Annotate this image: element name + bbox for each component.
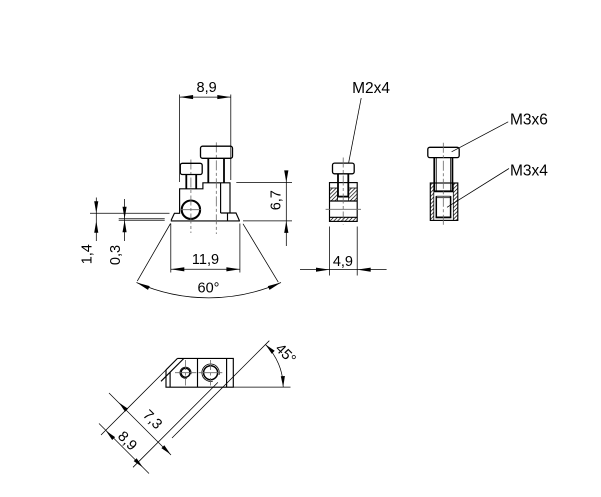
svg-text:60°: 60° (198, 281, 220, 297)
side section: screw M2x4 shaft (338, 174, 348, 197)
side section: vertical center line (342, 158, 344, 225)
front view: screw M2x4 head (180, 163, 202, 174)
dimension 0,3: arrows (123, 207, 127, 233)
dimension 7,3: dimension line (109, 393, 171, 455)
svg-text:0,3: 0,3 (108, 245, 124, 265)
front view: cross hole circle (182, 201, 200, 219)
dimension 45deg: horizontal reference line (233, 386, 290, 388)
side section: upper step line (330, 187, 358, 189)
right section: block outline (430, 183, 458, 220)
front view: right slot inner edge (220, 183, 222, 213)
dimension 8,9 top: dimension line (180, 96, 231, 98)
dimension 8,9 bottom: arrows (106, 431, 143, 468)
dimension 1,4: dimension line (95, 198, 97, 242)
bottom view: step edge (197, 358, 199, 387)
right section: set screw M3x4 sides (436, 196, 450, 217)
right section: hatch right strip (453, 183, 458, 220)
bottom view: hole M2 center lines (175, 360, 196, 386)
side section: cross hole bottom edge (330, 216, 358, 218)
side section: cross hole top edge (330, 200, 358, 202)
dimension 7,3: extension line long (chamfer extended) (101, 367, 169, 435)
right section: screw M3x6 head (428, 147, 459, 157)
bottom view: hole M2 inner circle (181, 368, 190, 377)
right section: hatch left strip (430, 183, 434, 220)
front view: left dovetail bevel and body left profile (171, 183, 230, 221)
front view: center line small screw axis (190, 160, 192, 234)
bottom view: hole M3 center lines (199, 360, 223, 386)
label M2x4 leader line (349, 98, 362, 162)
right section: screw M3x6 shaft thread lines (436, 158, 450, 192)
bottom view: corner chamfer edge (166, 358, 178, 370)
side section: hatch right upper (349, 188, 358, 201)
dimension 45deg: slanted reference line (172, 341, 269, 438)
svg-text:8,9: 8,9 (197, 80, 217, 96)
dimension 1,4: extension line top (90, 212, 170, 214)
svg-text:M3x4: M3x4 (510, 163, 548, 180)
dimension 8,9 top: arrows (180, 95, 231, 99)
dimension 60deg: arrows (137, 283, 282, 290)
front view: screw M3x6 shaft (208, 158, 224, 182)
dimension 6,7: extension lines (236, 182, 292, 221)
dimension 4,9: extension lines (330, 227, 358, 276)
right section: tapped hole walls (434, 183, 454, 220)
bottom view: hole M3 thread arc (202, 364, 219, 381)
dimension 4,9: dimension line (300, 269, 387, 271)
side section: hatch left upper (330, 188, 338, 201)
side section: block outline (330, 183, 358, 222)
side section: horizontal center line (326, 208, 361, 210)
side section: screw M2x4 tip (337, 196, 349, 198)
svg-text:1,4: 1,4 (80, 244, 96, 264)
dimension 8,9 bottom: dimension line (99, 424, 149, 474)
dimension 1,4: arrows (94, 201, 98, 232)
dimension 6,7: dimension line (285, 175, 287, 246)
label M3x4 leader line (447, 169, 509, 208)
dimension 7,3: arrows (119, 403, 171, 455)
bottom view: hole M3 inner circle (204, 366, 218, 380)
dimension 8,9 top: extension lines (180, 95, 231, 183)
dimension 45deg: arc (266, 345, 284, 388)
dimension 4,9: arrows (316, 268, 371, 272)
dimension 0,3: dimension line (124, 199, 126, 241)
dimension 60deg: text (194, 280, 224, 297)
front view: right ledge and bevel (221, 213, 240, 221)
dimension 8,9/7,3: extension line under part (133, 382, 218, 467)
side section: tapped hole walls (338, 188, 349, 201)
dimension 0,3: extension lines (119, 219, 165, 221)
right section: screw M3x6 shaft outer (434, 158, 452, 192)
svg-text:11,9: 11,9 (192, 252, 219, 268)
bottom view: left inner edge (169, 372, 171, 387)
dimension 6,7: arrows (284, 170, 288, 233)
front view: screw M2x4 shaft (186, 175, 196, 189)
front view: dovetail base bottom edge (171, 220, 240, 222)
right section: set screw M3x4 top (436, 195, 450, 197)
dimension 60deg: arc (137, 283, 282, 298)
front view: right chamfer edge (227, 213, 229, 221)
dimension 11,9: dimension line (171, 268, 240, 270)
svg-text:M2x4: M2x4 (352, 80, 390, 97)
bottom view: dovetail edge line B (161, 358, 184, 381)
svg-text:6,7: 6,7 (269, 190, 285, 210)
right section: set screw M3x4 second line (436, 197, 450, 199)
dimension 60deg: right flank line (243, 224, 278, 282)
dimension 11,9: arrows (171, 267, 240, 271)
right section: screw M3x6 tip (434, 190, 454, 192)
front view: screw M3x6 head (201, 146, 233, 158)
dimension 60deg: left flank line (137, 224, 170, 282)
side section: screw M2x4 head (333, 163, 355, 174)
right section: set screw M3x4 bottom (436, 216, 452, 218)
front view: cross hole horizontal center line (181, 209, 201, 211)
front view: center line big screw axis (215, 142, 217, 234)
dimension 45deg: arrows (266, 345, 285, 388)
svg-text:4,9: 4,9 (333, 254, 353, 270)
bottom view: hole M2 thread arc (180, 367, 191, 378)
dimension 11,9: extension lines (171, 224, 240, 273)
svg-text:M3x6: M3x6 (510, 111, 548, 128)
side section: hatch bottom strip (330, 217, 358, 221)
label M3x6 leader line (452, 122, 509, 152)
right section: vertical center line (442, 143, 444, 226)
bottom view: right end inner edge (226, 358, 228, 387)
bottom view: part outline (166, 358, 233, 387)
